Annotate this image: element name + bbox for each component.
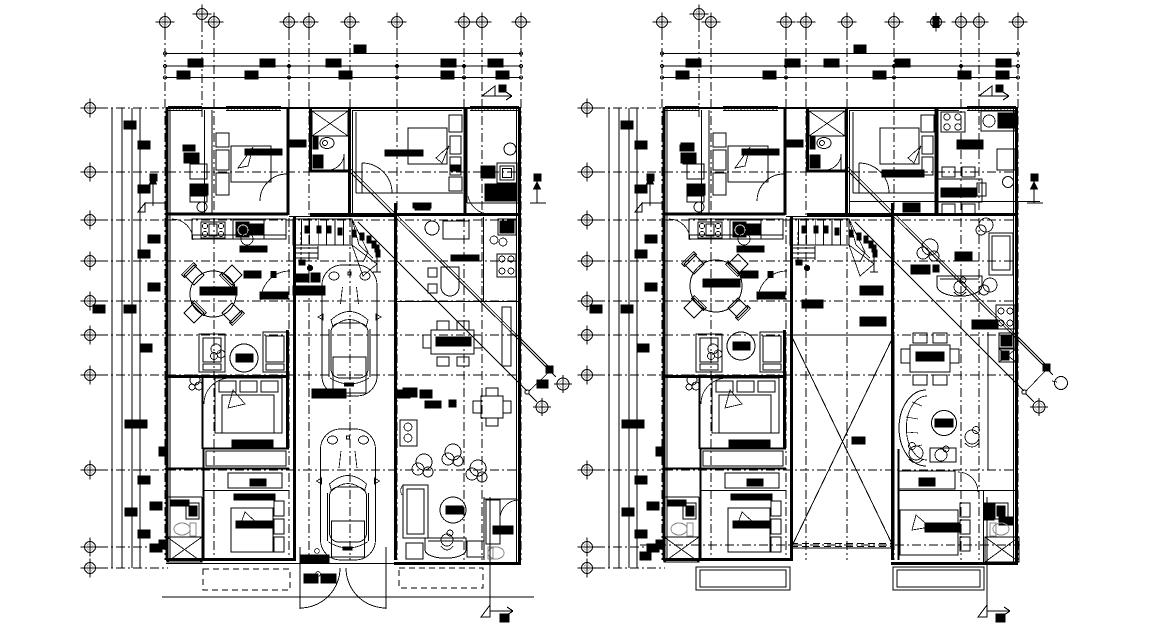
dining chair FF <box>683 296 706 319</box>
left dim text FF <box>647 174 654 181</box>
dresser marks bed1 FF <box>786 140 803 147</box>
grid line FF-T9 <box>978 31 980 560</box>
window band top-left2 FF <box>723 106 778 108</box>
window band top-mid GF <box>470 106 519 108</box>
stair winders GF <box>330 219 352 245</box>
FF diag2 <box>855 222 1024 391</box>
door arc bath GF <box>328 154 344 170</box>
grid bubble GF-L9 <box>81 538 100 557</box>
GF section diag bubble2 <box>533 398 551 416</box>
left dim vline FF <box>608 108 610 568</box>
dim text FF <box>785 59 800 67</box>
dimension line FF y66 <box>662 65 1018 67</box>
GF sofa L <box>403 485 428 538</box>
wardrobe vline FF <box>701 110 703 214</box>
wall mark2 FF <box>656 540 664 549</box>
kitchen door arc FF <box>669 219 690 240</box>
dim text FF <box>854 45 866 53</box>
FF right arrow <box>1031 174 1038 181</box>
grid line FF-T2 <box>698 23 700 120</box>
dining door arc GF <box>261 271 290 300</box>
bed master label GF <box>232 440 273 447</box>
FF shower X2 <box>985 537 1019 562</box>
closet label GF <box>234 494 275 500</box>
grid line GF-T4 <box>288 31 290 560</box>
FF lounge wall <box>987 332 989 470</box>
kitchen label FF <box>737 246 764 252</box>
FF dining chair2 <box>962 204 975 214</box>
GF sofa bottom <box>425 538 466 558</box>
FF plant lv3 <box>979 278 997 295</box>
GF person1 <box>441 530 453 550</box>
outer wall bottom-right GF <box>394 562 518 565</box>
dining chair GF <box>220 264 243 287</box>
outer wall right GF <box>518 108 521 565</box>
GF vent circle <box>504 143 516 155</box>
left dim vline GF <box>121 108 123 568</box>
GF wc walls <box>483 497 485 560</box>
wall master right GF <box>286 330 289 449</box>
toilet GF <box>320 138 334 149</box>
dim text FF <box>996 71 1009 79</box>
grid bubble GF-L3 <box>81 211 100 230</box>
GF car1 label <box>312 389 346 398</box>
grid bubble GF-T5 <box>300 13 319 32</box>
grid bubble FF-T8 <box>952 13 971 32</box>
grid row line GF-L9 <box>99 546 168 548</box>
stair dot GF <box>372 241 376 248</box>
bath2 toilet FF <box>671 523 693 536</box>
GF dining chair R <box>474 335 482 348</box>
wall bed2 left FF <box>849 110 851 215</box>
bed2 small label GF <box>415 204 430 210</box>
GF utility door arc <box>468 196 490 214</box>
dining labels FF <box>741 271 758 278</box>
wardrobe bed1 FF <box>680 145 692 151</box>
kitchen sink FF <box>730 220 761 239</box>
GF bottom arrow <box>489 497 491 612</box>
bed B3 FF <box>728 508 770 552</box>
grid row line FF-L9 <box>596 546 665 548</box>
left dim vline GF <box>131 108 133 568</box>
dimension tick FF <box>660 64 663 67</box>
tv table FF <box>727 332 755 360</box>
wall garage left GF <box>293 217 296 559</box>
outer wall top GF <box>166 107 521 109</box>
stair dot FF <box>864 236 868 243</box>
window band top-mid FF <box>967 106 1016 108</box>
grid line GF-T6 <box>349 31 351 560</box>
FF bath4 <box>984 503 994 520</box>
FF dining3 chair <box>933 333 947 343</box>
grid bubble GF-L2 <box>81 163 100 182</box>
dimension line GF y53.5 <box>165 53 521 55</box>
grid row line FF-L4 <box>596 260 1018 262</box>
dimension tick GF <box>163 52 166 55</box>
FF dining3 chair <box>913 333 927 343</box>
outer wall left GF <box>166 108 169 560</box>
FF balcony R <box>893 567 984 590</box>
bed B1 FF <box>728 146 768 182</box>
dining chair FF <box>682 252 705 275</box>
left dim vline FF <box>636 108 638 568</box>
grid bubble FF-T1 <box>653 13 672 32</box>
grid bubble FF-L2 <box>578 163 597 182</box>
grid line FF-T6 <box>846 31 848 560</box>
window band top-left FF <box>665 106 699 108</box>
wall bed1 right GF <box>287 108 290 215</box>
FF kitchen label <box>957 140 983 149</box>
dimension tick GF <box>163 64 166 67</box>
dimension line FF y53.5 <box>662 53 1018 55</box>
FF lounge person1 <box>965 427 980 448</box>
grid bubble FF-L4 <box>578 252 597 271</box>
dim node FF <box>785 65 788 68</box>
GF dining table <box>431 330 474 354</box>
dim node GF <box>288 65 291 68</box>
grid bubble FF-T3 <box>702 13 721 32</box>
wall bed3 left GF <box>203 449 205 560</box>
GF chair b2 <box>467 541 484 557</box>
FF bed4 walls <box>898 490 1019 492</box>
FF kitchen circle <box>1003 177 1014 188</box>
dining chair GF <box>182 263 205 286</box>
left dim text GF <box>138 250 150 258</box>
dim node FF <box>960 65 963 68</box>
grid bubble GF-L7 <box>81 366 100 385</box>
dim text FF <box>763 71 776 79</box>
stove FF <box>698 222 722 238</box>
FF fridge <box>997 149 1015 170</box>
left dim text GF <box>138 530 150 538</box>
dim text FF <box>676 71 689 79</box>
wall utility left FF <box>937 108 939 215</box>
GF square table <box>481 396 503 418</box>
left dim vline GF <box>111 108 113 568</box>
grid bubble FF-extra <box>927 13 946 32</box>
grid line FF-T4 <box>785 31 787 560</box>
FF extra marks TL <box>681 143 694 151</box>
stair dot FF <box>857 233 861 240</box>
dim text GF <box>488 59 503 67</box>
bath2 wall GF <box>201 497 203 560</box>
bed B2 label GF <box>385 150 423 156</box>
FF sofa curved <box>937 276 982 296</box>
wall bath bottom FF <box>808 170 847 173</box>
FF dining3 table <box>910 345 950 372</box>
dimension tick GF <box>163 76 166 79</box>
armchair L FF <box>696 334 722 372</box>
stair flight FF <box>790 219 849 245</box>
GF bar <box>397 390 410 398</box>
dining threshold FF <box>757 292 785 299</box>
grid bubble FF-T10 <box>1009 13 1028 32</box>
left dim text FF <box>645 283 657 291</box>
FF plant lv1 <box>917 239 939 261</box>
wall stair bottom FF <box>786 216 892 218</box>
GF laundry walls <box>397 301 521 303</box>
grid row line GF-L10 <box>99 567 168 569</box>
grid line GF-T5 <box>308 31 310 560</box>
FF kitchen stove <box>941 112 965 132</box>
wall master top FF <box>664 375 786 378</box>
master door arc FF <box>701 378 727 404</box>
wall garage right GF <box>394 203 397 560</box>
FF long line y201 <box>849 201 1040 203</box>
wall corridor FF <box>700 448 787 450</box>
bed B2 FF <box>880 128 919 164</box>
grid line GF-T7 <box>396 31 398 560</box>
section arrow top FF <box>979 85 1009 100</box>
grid bubble FF-L6 <box>578 326 597 345</box>
master door arc GF <box>204 378 230 404</box>
bed B1 label FF <box>742 149 779 155</box>
FF lounge items <box>930 448 956 462</box>
grid bubble FF-T7 <box>885 13 904 32</box>
grid row line GF-L4 <box>99 260 521 262</box>
FF plant lv2 <box>976 218 993 235</box>
GF plant2 <box>442 444 463 466</box>
GF right arrow <box>534 174 541 181</box>
dim text FF <box>895 59 910 67</box>
grid line FF-T1 <box>661 31 663 560</box>
grid row line FF-L6 <box>596 334 1018 336</box>
GF dining chair L <box>423 335 431 348</box>
stair dot FF <box>872 245 876 252</box>
GF chair b1 <box>406 543 423 559</box>
dimension tick FF <box>660 52 663 55</box>
bed B1 label GF <box>245 149 282 155</box>
closet GF <box>228 473 282 488</box>
stair dot FF <box>814 226 818 233</box>
grid bubble FF-T4 <box>777 13 796 32</box>
hall door arc2 FF <box>859 163 889 193</box>
FF person lv <box>954 277 966 296</box>
stair arrow GF <box>300 232 302 262</box>
dim text FF <box>958 71 971 79</box>
dim text FF <box>873 71 886 79</box>
wall bed3 left FF <box>700 449 702 560</box>
toilet FF <box>817 138 831 149</box>
wall bed3 top FF <box>700 490 787 492</box>
window band top-left2 GF <box>226 106 281 108</box>
grid bubble FF-T9 <box>970 13 989 32</box>
bed B1 GF <box>231 146 271 182</box>
grid row line FF-L3 <box>596 219 1018 221</box>
FF bath label <box>972 320 998 329</box>
fridge circle FF <box>738 233 750 245</box>
grid line GF-T9 <box>481 31 483 560</box>
wardrobe vline GF <box>204 110 206 214</box>
grid bubble GF-T1 <box>156 13 175 32</box>
grid bubble GF-T8 <box>455 13 474 32</box>
dim text GF <box>260 59 275 67</box>
FF void X <box>791 335 894 548</box>
grid row line GF-L3 <box>99 219 521 221</box>
bed master GF <box>215 378 282 433</box>
tv table GF <box>230 344 258 372</box>
FF dining chair2 <box>942 204 955 214</box>
FF bed4 <box>900 510 958 555</box>
armchair L GF <box>199 334 225 372</box>
dining door arc FF <box>758 271 787 300</box>
FF bath fixture2 <box>999 333 1014 348</box>
GF ground line <box>162 596 534 598</box>
FF kitchen sink <box>981 111 1015 131</box>
dimension line GF y66 <box>165 65 521 67</box>
FF bedroom2 label <box>882 170 924 177</box>
GF laundry label <box>451 255 479 261</box>
wall bed2 bottom FF <box>807 213 1018 216</box>
dim text GF <box>245 71 258 79</box>
stair lower steps GF <box>296 247 318 249</box>
kitchen counter FF <box>689 219 783 239</box>
closet FF <box>725 473 779 488</box>
dim text GF <box>339 71 352 79</box>
grid bubble GF-L4 <box>81 252 100 271</box>
FF stair labels <box>860 286 883 295</box>
grid bubble FF-L9 <box>578 538 597 557</box>
wall master left GF <box>202 377 204 449</box>
left dim text GF <box>138 476 150 484</box>
stair dot FF <box>802 226 806 233</box>
dining chair FF <box>727 297 750 320</box>
dining table GF <box>190 271 236 317</box>
wall bed2 right FF <box>935 108 938 215</box>
stair dot GF <box>375 245 379 252</box>
wall mark1 FF <box>656 447 664 456</box>
outer wall left FF <box>663 108 666 560</box>
stair dot circle FF <box>804 265 809 270</box>
dim text GF <box>326 59 341 67</box>
wall bath right FF <box>845 108 848 215</box>
left dim text GF <box>125 508 137 516</box>
grid row line GF-L1 <box>99 107 168 109</box>
GF coffee table <box>440 497 466 523</box>
vent circle bed1 GF <box>197 202 207 212</box>
left dim text GF <box>138 185 150 193</box>
stair dot FF <box>835 228 839 235</box>
grid bubble GF-T2 <box>193 5 212 24</box>
dim text FF <box>824 59 839 67</box>
left dim text GF <box>138 141 150 149</box>
GF section diagonal <box>348 170 556 377</box>
washbasin bath FF <box>810 155 820 168</box>
grid line FF-T10 <box>1017 31 1019 560</box>
hall door arc1 FF <box>757 174 784 201</box>
wall bath left GF <box>309 108 312 172</box>
grid bubble FF-L3 <box>578 211 597 230</box>
vent circle bed1 FF <box>694 202 704 212</box>
grid row line GF-L6 <box>99 334 521 336</box>
FF lounge person2 <box>909 443 924 464</box>
GF section diag bubble1 <box>554 375 572 393</box>
GF plant1 <box>412 454 433 477</box>
grid bubble GF-L8 <box>81 461 100 480</box>
wall mark1 GF <box>159 447 167 456</box>
grid bubble GF-L6 <box>81 326 100 345</box>
grid bubble GF-L10 <box>81 559 100 578</box>
outer wall bottom-left FF <box>663 558 793 561</box>
FF dining3 chair L <box>901 349 910 363</box>
dining chair FF <box>726 253 749 276</box>
bath2 basin GF <box>171 500 189 506</box>
left dim text FF <box>622 508 634 516</box>
plant tv GF <box>211 344 226 360</box>
grid line FF-T3 <box>710 31 712 560</box>
bed B3 label GF <box>236 521 274 528</box>
shower X FF <box>664 537 699 562</box>
grid row line FF-L5 <box>596 300 1018 302</box>
grid line GF-T8 <box>463 31 465 560</box>
wall corridor GF <box>203 448 290 450</box>
GF entry leaves <box>299 547 301 609</box>
shower X GF <box>167 537 202 562</box>
FF bath fixture1 <box>996 305 1015 329</box>
stair flight GF <box>293 219 352 245</box>
grid bubble FF-L10 <box>578 559 597 578</box>
wall mark2 GF <box>159 540 167 549</box>
grid row line FF-L10 <box>596 567 665 569</box>
outer wall bottom-right FF <box>891 562 1015 565</box>
dim text GF <box>188 59 203 67</box>
wall master left FF <box>699 377 701 449</box>
dim text GF <box>441 71 454 79</box>
GF entry arcs <box>300 568 340 608</box>
wall bath right GF <box>348 108 351 215</box>
outer wall left2 FF <box>666 108 668 560</box>
left dim vline GF <box>139 108 141 568</box>
GF dining chair <box>437 321 449 330</box>
outer wall bottom-left GF <box>166 558 296 561</box>
GF porch dashed R <box>399 568 483 588</box>
left dim text GF <box>150 502 162 510</box>
left dim text FF <box>635 530 647 538</box>
stair dot GF <box>360 233 364 240</box>
grid line GF-T1 <box>164 31 166 560</box>
outer wall top2 GF <box>352 110 462 112</box>
section arrow top GF <box>482 85 512 100</box>
dining labels GF <box>244 271 261 278</box>
dimension line FF y77.5 <box>662 77 1018 79</box>
GF dining chair <box>457 357 469 366</box>
GF sideboard <box>400 420 417 446</box>
dim node FF <box>893 65 896 68</box>
dining chair GF <box>183 301 206 324</box>
wall garage left FF <box>790 217 793 559</box>
FF living bar2 <box>911 265 930 274</box>
grid line GF-T2 <box>201 23 203 120</box>
GF dining label mid <box>403 388 417 397</box>
left dim text GF <box>93 305 105 313</box>
stair dot GF <box>305 226 309 233</box>
left dim text FF <box>645 235 657 243</box>
grid bubble FF-T2 <box>690 5 709 24</box>
stair lower steps FF <box>793 247 815 249</box>
FF closet2 door <box>958 472 978 492</box>
dimension tick FF <box>660 76 663 79</box>
wall master right FF <box>783 330 786 449</box>
wall bed2 bottom GF <box>310 213 521 216</box>
grid bubble GF-T10 <box>512 13 531 32</box>
grid bubble FF-T6 <box>838 13 857 32</box>
grid row line GF-L7 <box>99 374 521 376</box>
left dim text FF <box>647 502 659 510</box>
grid bubble GF-L1 <box>81 99 100 118</box>
FF void label <box>852 437 865 444</box>
bathtub GF <box>312 111 348 136</box>
wall master top GF <box>167 375 289 378</box>
